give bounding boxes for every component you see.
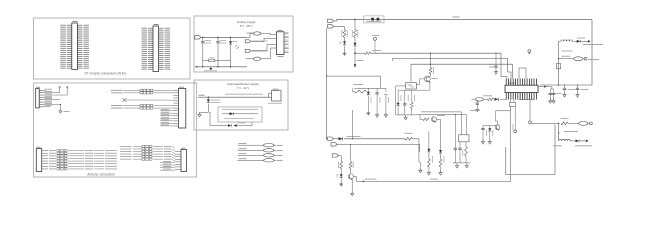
output bead and diode to DC+ [559, 40, 561, 42]
ferrite bead row 4 [239, 158, 247, 160]
diode pair lower [210, 125, 228, 127]
driver ground bus [453, 162, 470, 164]
wire bottom pins to out [529, 100, 531, 121]
connector CN3 alternate [272, 91, 282, 102]
ground bus analog [197, 66, 248, 68]
input plug P2 DC- [328, 25, 334, 28]
sheet box: Alternate/Nucleo supply [194, 80, 288, 130]
snubber grounds [482, 140, 484, 142]
aux junction wires [419, 115, 421, 120]
lower output bead TP [559, 122, 571, 124]
connector CN10 (ST morpho right) [153, 26, 159, 72]
svg-text:7 V - 12 V: 7 V - 12 V [237, 86, 250, 90]
ground LED2 [340, 182, 342, 184]
resistor R tl2a (LED) [397, 90, 399, 103]
sheet box: Arduino connectors [34, 83, 197, 177]
wire W2 primary feed [355, 52, 365, 54]
feedback resistor diode [488, 98, 494, 101]
wire opto left to rail [396, 85, 406, 87]
wire Q1 emitter [429, 82, 431, 90]
power flag +3V3 [59, 87, 61, 93]
grounds mid cluster [367, 111, 369, 113]
transistor Q4 aux [423, 118, 429, 121]
test point TP2 on W2 [528, 50, 531, 53]
output rail vertical with resistor [558, 41, 560, 85]
wires from CN6 with net labels [44, 89, 47, 91]
LED D run [340, 174, 343, 177]
net arrow down VIN_SENSE [354, 64, 357, 68]
diode D mid [367, 88, 369, 92]
input plug J1 analog supply [195, 36, 201, 39]
output caps pair right [564, 85, 566, 88]
snubber network box [509, 102, 515, 106]
wire DC in row2 [338, 143, 420, 145]
resistor R tl2b [411, 90, 413, 102]
input plug P3 [327, 137, 333, 140]
feedback bead FB1 [475, 98, 483, 102]
wire rows from CN5 with series resistors and labels [49, 150, 56, 152]
input plug P1 DC+ [328, 19, 334, 22]
input plug P5 [332, 154, 338, 157]
diode D reverse protection [208, 97, 209, 98]
wire main VIN bus [334, 20, 337, 22]
connector CN2 analog out [276, 32, 284, 55]
svg-text:8 V - 48 V: 8 V - 48 V [240, 24, 253, 28]
resistor R sense mid [354, 90, 366, 93]
wire rows into CN9 with series resistors and labels [120, 145, 132, 147]
diode D vin [354, 43, 357, 46]
wire VIN bus to right [378, 19, 592, 21]
svg-text:Arduino connectors: Arduino connectors [87, 172, 115, 176]
LED indicator emission arrows [235, 45, 237, 47]
alternate-use nets into CN8 (upper) [111, 89, 123, 91]
shunt resistor R sense [203, 59, 209, 61]
jumper bead JP1 [247, 32, 253, 34]
capacitor C mid [376, 88, 378, 92]
snubber transistor Q3 [495, 125, 500, 130]
junction VIN bus [354, 19, 355, 20]
diode D input [339, 137, 343, 140]
connector CN5 (digital header left) [36, 149, 41, 172]
aux supply wires [421, 111, 462, 113]
connector CN8 (analog header) [178, 89, 185, 129]
wire corners into transformer top pins [500, 53, 502, 76]
label VIN [199, 94, 205, 96]
resistor R led2 [340, 162, 343, 169]
mid sense cluster bus [327, 75, 381, 77]
wire VIN bus drop right side [591, 20, 593, 85]
wire VIN to connector [198, 96, 271, 98]
capacitor C入1 [202, 37, 203, 38]
connector CN9 (digital header right) [181, 150, 187, 172]
wire gate drive long [354, 176, 357, 178]
wire from snubber left [496, 110, 511, 112]
transistor Q1 [424, 76, 430, 82]
fuse F1 [364, 16, 384, 23]
wire bus PGND right [540, 84, 592, 86]
zener D mid2 [385, 88, 387, 92]
aux right rail diode [440, 122, 442, 150]
terminal TP out1 [514, 130, 517, 133]
wire opto bottom bus [398, 89, 412, 91]
wire DC in row1 with diode and PTC [334, 138, 339, 140]
power flag +5V [66, 87, 68, 95]
transformer bottom pins [505, 93, 507, 100]
ferrite bead row 2 [239, 148, 247, 150]
ground LED [344, 46, 346, 52]
driver lower parts [459, 142, 461, 148]
ground at CN6 [60, 104, 61, 105]
ground Q2 [351, 191, 353, 193]
resistor R series W2 [365, 52, 371, 55]
wire W3 [393, 57, 508, 59]
ground wire alternate [200, 111, 209, 113]
optocoupler U3 box [406, 83, 417, 89]
wire W4 [411, 63, 513, 65]
capacitor C tl2 [404, 90, 406, 103]
connector CN6 (power header) [36, 89, 40, 108]
transformer top pins [505, 79, 507, 86]
ferrite bead row 1 [239, 143, 247, 145]
alternate-use nets into CN8 (lower) [111, 105, 123, 107]
no-connect cross [123, 98, 127, 102]
ferrite bead row 3 [239, 153, 247, 155]
transistor Q1 bias resistor [430, 53, 432, 64]
resistor R led [344, 27, 346, 30]
caps near transformer right [538, 86, 547, 88]
zener diode D protection [230, 37, 231, 38]
test point TP vin [374, 37, 377, 40]
snubber cap [482, 126, 484, 129]
resistor R vin divider [354, 20, 356, 30]
sheet box: ST morpho connectors [34, 18, 191, 79]
LED D power [343, 41, 346, 44]
terminal TP out2 [529, 121, 532, 124]
output sense vertical [514, 106, 516, 129]
sheet box: Analog supply [194, 16, 293, 72]
wire Q1 base [420, 78, 425, 80]
diode D option [222, 113, 230, 115]
capacitor C入2 [217, 37, 218, 38]
connector CN7 (ST morpho left) [72, 23, 78, 70]
lower coil diode to DC- [559, 139, 571, 140]
input plug P4 [331, 143, 337, 146]
snubber zener [489, 126, 491, 129]
aux rails grounds [419, 168, 421, 170]
left return vertical wire [326, 28, 328, 138]
transformer T1 body [505, 85, 538, 92]
jumper bead JP2 [246, 58, 254, 60]
wire top bus analog [201, 36, 247, 38]
regulator plug J2 [245, 40, 251, 43]
transistor Q2 low side [350, 144, 352, 161]
MOSFET driver block [459, 135, 470, 142]
ground symbol analog [210, 67, 212, 68]
output bead row 2 [559, 58, 574, 60]
regulator plug J3 [245, 49, 251, 52]
capacitor C hv filter [495, 53, 497, 66]
wire loop secondary return [505, 147, 507, 175]
transformer bottom pin bus [519, 99, 535, 101]
wire plug2 to LED branch [334, 26, 345, 28]
lower output junction [558, 123, 559, 124]
feedback caps [476, 101, 478, 103]
svg-text:ST morpho connectors (N.M.): ST morpho connectors (N.M.) [85, 72, 127, 76]
option box: diode to be N.M. [218, 107, 262, 122]
vertical feed mid [351, 110, 353, 139]
PTC resistor [405, 137, 413, 140]
ground TL2 [396, 114, 417, 116]
aux left rail LED [428, 131, 430, 149]
